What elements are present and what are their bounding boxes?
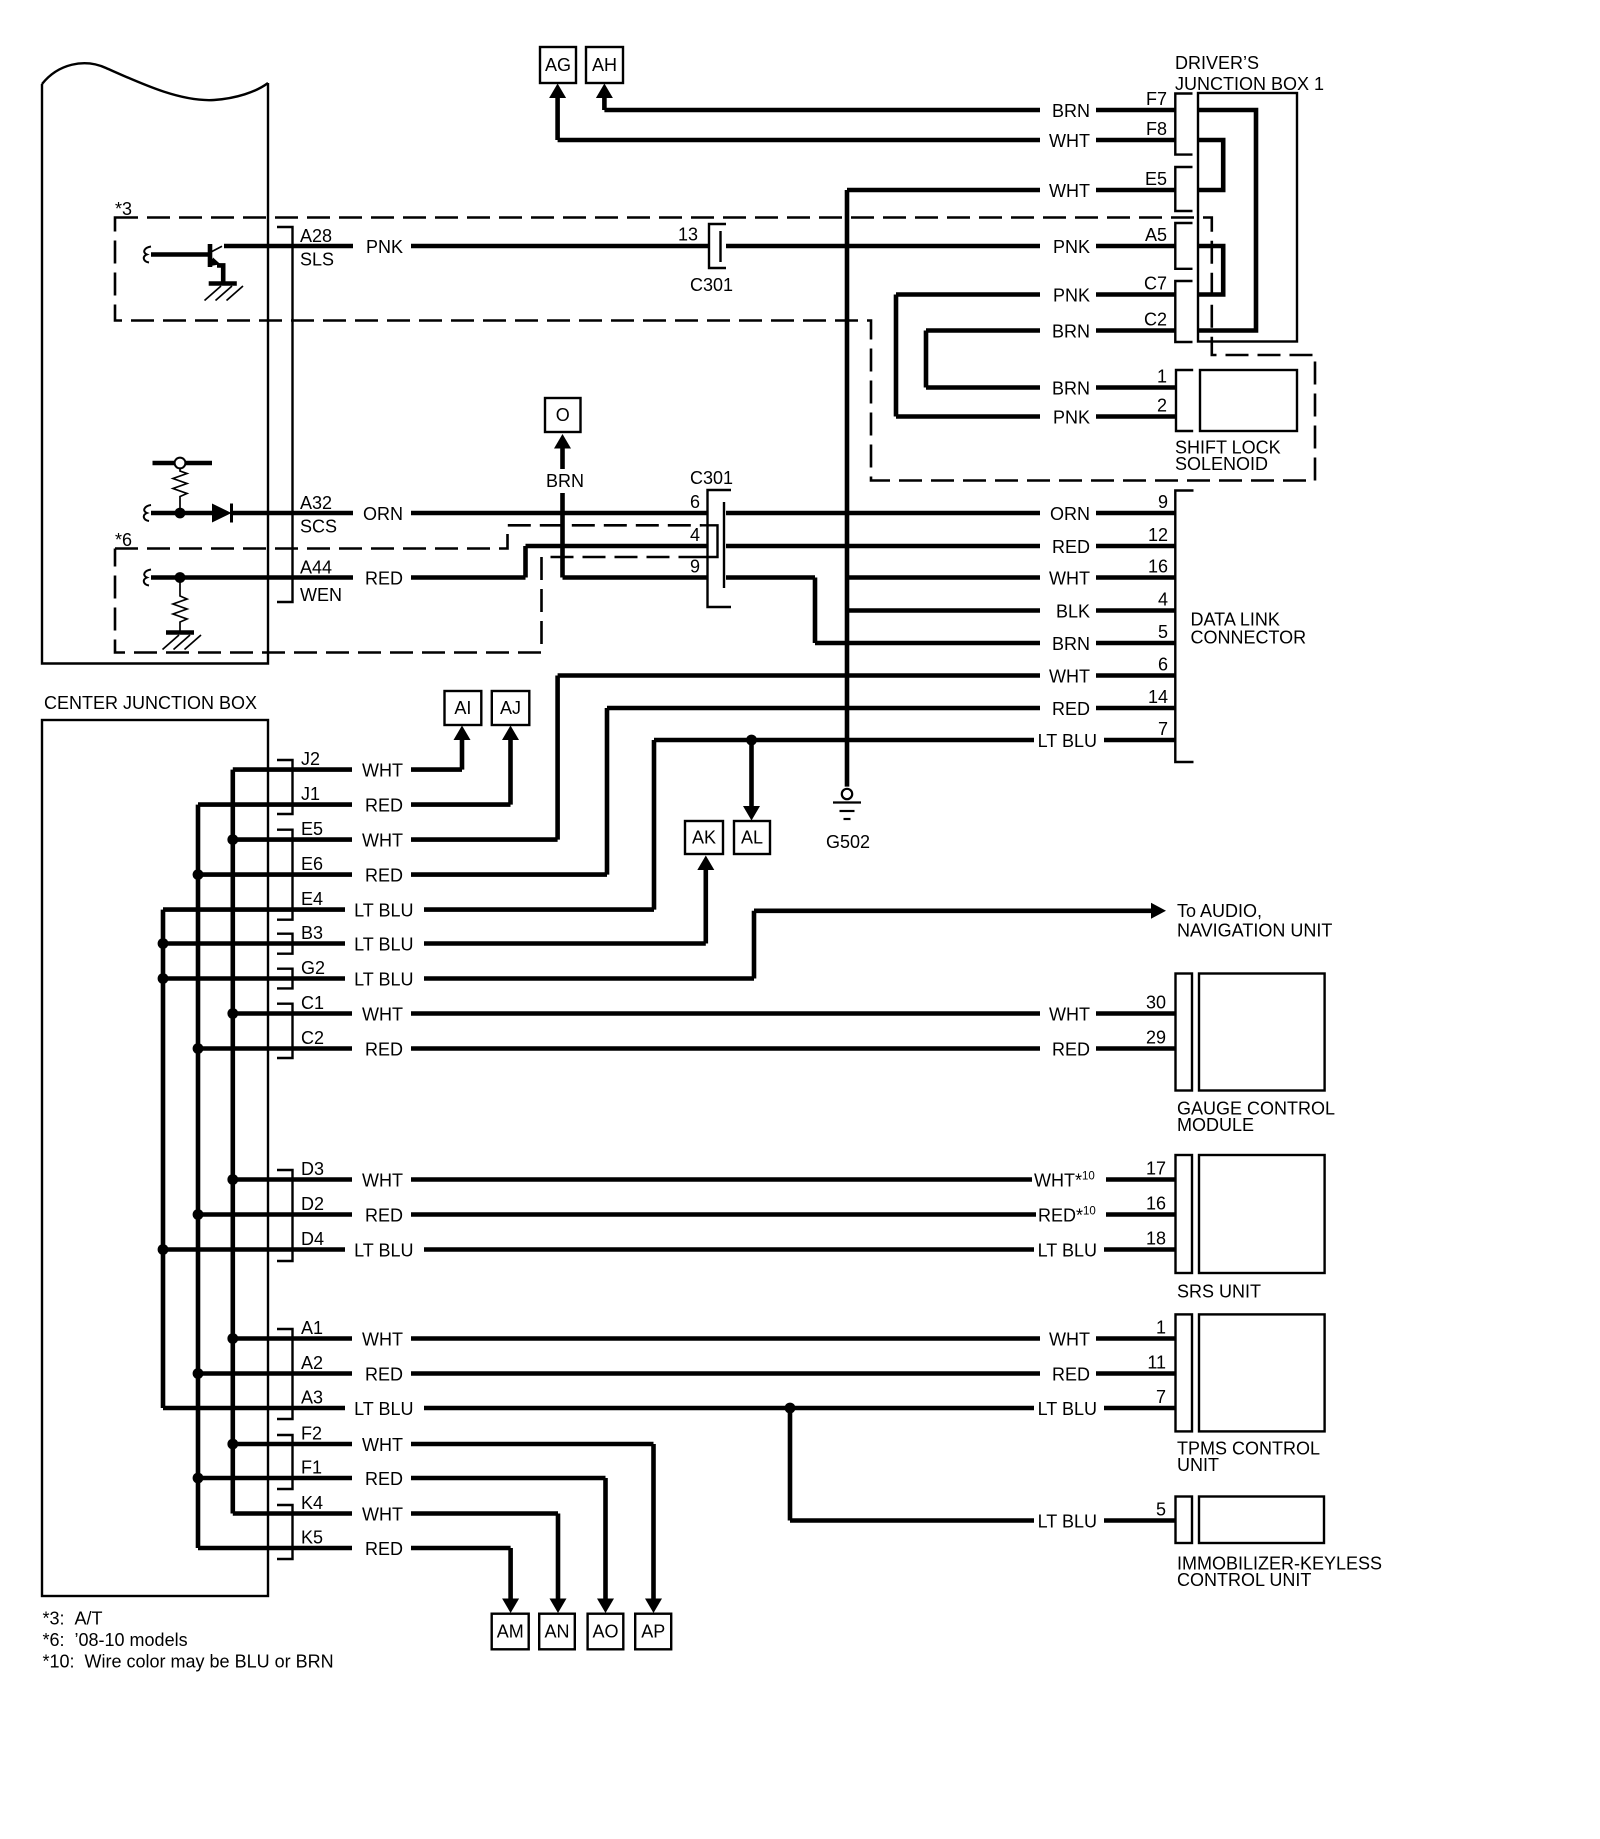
svg-text:PNK: PNK bbox=[1053, 237, 1090, 257]
svg-text:RED: RED bbox=[365, 1469, 403, 1489]
svg-text:RED: RED bbox=[365, 1040, 403, 1060]
svg-text:RED: RED bbox=[365, 1206, 403, 1226]
svg-text:BRN: BRN bbox=[1052, 379, 1090, 399]
svg-text:C2: C2 bbox=[1144, 310, 1167, 330]
svg-text:F2: F2 bbox=[301, 1424, 322, 1444]
svg-text:*3: A/T: *3: A/T bbox=[43, 1609, 103, 1629]
svg-text:E5: E5 bbox=[1145, 169, 1167, 189]
svg-text:1: 1 bbox=[1157, 367, 1167, 387]
svg-text:C1: C1 bbox=[301, 993, 324, 1013]
svg-text:RED: RED bbox=[365, 569, 403, 589]
svg-text:LT BLU: LT BLU bbox=[1038, 1241, 1097, 1261]
svg-text:A32: A32 bbox=[300, 493, 332, 513]
svg-text:DRIVER’S: DRIVER’S bbox=[1175, 53, 1259, 73]
svg-text:SOLENOID: SOLENOID bbox=[1175, 454, 1268, 474]
svg-text:16: 16 bbox=[1148, 557, 1168, 577]
svg-text:D4: D4 bbox=[301, 1229, 324, 1249]
svg-text:C2: C2 bbox=[301, 1028, 324, 1048]
svg-text:G502: G502 bbox=[826, 832, 870, 852]
svg-text:AO: AO bbox=[592, 1622, 618, 1642]
svg-text:WHT: WHT bbox=[362, 1505, 403, 1525]
svg-text:A28: A28 bbox=[300, 226, 332, 246]
svg-text:*6: *6 bbox=[115, 530, 132, 550]
svg-text:7: 7 bbox=[1156, 1387, 1166, 1407]
svg-text:WHT: WHT bbox=[362, 831, 403, 851]
svg-text:E4: E4 bbox=[301, 889, 323, 909]
svg-text:LT BLU: LT BLU bbox=[354, 1399, 413, 1419]
svg-text:RED*10: RED*10 bbox=[1038, 1206, 1096, 1226]
svg-text:PNK: PNK bbox=[1053, 286, 1090, 306]
svg-text:WEN: WEN bbox=[300, 585, 342, 605]
svg-text:AH: AH bbox=[592, 55, 617, 75]
svg-text:NAVIGATION UNIT: NAVIGATION UNIT bbox=[1177, 921, 1332, 941]
svg-text:CONTROL UNIT: CONTROL UNIT bbox=[1177, 1570, 1311, 1590]
svg-text:WHT: WHT bbox=[1049, 667, 1090, 687]
svg-text:AI: AI bbox=[454, 698, 471, 718]
svg-text:UNIT: UNIT bbox=[1177, 1455, 1219, 1475]
svg-text:7: 7 bbox=[1158, 719, 1168, 739]
svg-text:A3: A3 bbox=[301, 1388, 323, 1408]
svg-text:J1: J1 bbox=[301, 784, 320, 804]
svg-text:LT BLU: LT BLU bbox=[354, 901, 413, 921]
svg-text:CONNECTOR: CONNECTOR bbox=[1191, 628, 1307, 648]
svg-text:5: 5 bbox=[1156, 1500, 1166, 1520]
svg-text:BLK: BLK bbox=[1056, 602, 1090, 622]
svg-text:RED: RED bbox=[1052, 1040, 1090, 1060]
svg-text:SCS: SCS bbox=[300, 517, 337, 537]
svg-text:LT BLU: LT BLU bbox=[354, 935, 413, 955]
svg-text:ORN: ORN bbox=[363, 504, 403, 524]
svg-text:F8: F8 bbox=[1146, 119, 1167, 139]
svg-text:18: 18 bbox=[1146, 1229, 1166, 1249]
svg-text:AP: AP bbox=[641, 1622, 665, 1642]
svg-text:LT BLU: LT BLU bbox=[354, 970, 413, 990]
svg-text:F1: F1 bbox=[301, 1458, 322, 1478]
svg-text:BRN: BRN bbox=[1052, 634, 1090, 654]
svg-text:LT BLU: LT BLU bbox=[1038, 1512, 1097, 1532]
svg-text:13: 13 bbox=[678, 225, 698, 245]
svg-text:F7: F7 bbox=[1146, 89, 1167, 109]
svg-text:AK: AK bbox=[692, 828, 716, 848]
svg-text:14: 14 bbox=[1148, 687, 1168, 707]
svg-text:CENTER JUNCTION BOX: CENTER JUNCTION BOX bbox=[44, 693, 257, 713]
svg-text:WHT: WHT bbox=[362, 1171, 403, 1191]
svg-text:RED: RED bbox=[365, 1539, 403, 1559]
svg-text:WHT: WHT bbox=[1049, 181, 1090, 201]
svg-text:K4: K4 bbox=[301, 1493, 323, 1513]
svg-text:WHT*10: WHT*10 bbox=[1034, 1171, 1095, 1191]
svg-text:O: O bbox=[556, 405, 570, 425]
svg-text:*3: *3 bbox=[115, 199, 132, 219]
svg-text:C7: C7 bbox=[1144, 274, 1167, 294]
svg-text:A5: A5 bbox=[1145, 225, 1167, 245]
svg-text:WHT: WHT bbox=[1049, 569, 1090, 589]
svg-text:RED: RED bbox=[365, 1365, 403, 1385]
svg-text:RED: RED bbox=[1052, 537, 1090, 557]
svg-text:E6: E6 bbox=[301, 854, 323, 874]
svg-text:12: 12 bbox=[1148, 525, 1168, 545]
svg-text:JUNCTION BOX 1: JUNCTION BOX 1 bbox=[1175, 74, 1324, 94]
svg-text:BRN: BRN bbox=[1052, 322, 1090, 342]
svg-text:MODULE: MODULE bbox=[1177, 1115, 1254, 1135]
svg-text:ORN: ORN bbox=[1050, 504, 1090, 524]
svg-text:BRN: BRN bbox=[546, 471, 584, 491]
svg-text:AN: AN bbox=[544, 1622, 569, 1642]
svg-text:G2: G2 bbox=[301, 958, 325, 978]
svg-text:J2: J2 bbox=[301, 749, 320, 769]
svg-text:A2: A2 bbox=[301, 1353, 323, 1373]
svg-text:2: 2 bbox=[1157, 396, 1167, 416]
svg-text:WHT: WHT bbox=[362, 1005, 403, 1025]
svg-text:BRN: BRN bbox=[1052, 101, 1090, 121]
svg-text:D2: D2 bbox=[301, 1194, 324, 1214]
svg-text:To AUDIO,: To AUDIO, bbox=[1177, 901, 1262, 921]
svg-text:RED: RED bbox=[365, 796, 403, 816]
svg-text:A44: A44 bbox=[300, 558, 332, 578]
svg-text:4: 4 bbox=[690, 525, 700, 545]
svg-text:1: 1 bbox=[1156, 1318, 1166, 1338]
svg-text:WHT: WHT bbox=[1049, 1005, 1090, 1025]
svg-text:16: 16 bbox=[1146, 1194, 1166, 1214]
svg-text:6: 6 bbox=[690, 492, 700, 512]
svg-text:WHT: WHT bbox=[362, 761, 403, 781]
svg-text:WHT: WHT bbox=[1049, 131, 1090, 151]
svg-text:K5: K5 bbox=[301, 1528, 323, 1548]
svg-text:WHT: WHT bbox=[362, 1435, 403, 1455]
svg-text:6: 6 bbox=[1158, 655, 1168, 675]
svg-text:LT BLU: LT BLU bbox=[354, 1241, 413, 1261]
svg-text:E5: E5 bbox=[301, 819, 323, 839]
svg-text:5: 5 bbox=[1158, 622, 1168, 642]
svg-text:B3: B3 bbox=[301, 923, 323, 943]
svg-text:AM: AM bbox=[497, 1622, 524, 1642]
svg-text:SRS UNIT: SRS UNIT bbox=[1177, 1282, 1261, 1302]
svg-text:SLS: SLS bbox=[300, 250, 334, 270]
svg-text:AJ: AJ bbox=[500, 698, 521, 718]
svg-text:LT BLU: LT BLU bbox=[1038, 1399, 1097, 1419]
svg-text:AL: AL bbox=[741, 828, 763, 848]
svg-text:9: 9 bbox=[690, 557, 700, 577]
svg-text:RED: RED bbox=[365, 866, 403, 886]
svg-text:AG: AG bbox=[545, 55, 571, 75]
svg-text:9: 9 bbox=[1158, 492, 1168, 512]
svg-text:4: 4 bbox=[1158, 590, 1168, 610]
svg-text:*6: ’08-10 models: *6: ’08-10 models bbox=[43, 1630, 188, 1650]
svg-text:PNK: PNK bbox=[1053, 408, 1090, 428]
svg-text:17: 17 bbox=[1146, 1159, 1166, 1179]
svg-text:30: 30 bbox=[1146, 993, 1166, 1013]
svg-text:RED: RED bbox=[1052, 1365, 1090, 1385]
svg-text:29: 29 bbox=[1146, 1028, 1166, 1048]
svg-text:WHT: WHT bbox=[1049, 1330, 1090, 1350]
svg-text:DATA LINK: DATA LINK bbox=[1191, 610, 1280, 630]
svg-text:PNK: PNK bbox=[366, 237, 403, 257]
svg-text:*10: Wire color may be BLU or: *10: Wire color may be BLU or BRN bbox=[43, 1652, 334, 1672]
svg-text:C301: C301 bbox=[690, 468, 733, 488]
svg-text:A1: A1 bbox=[301, 1318, 323, 1338]
svg-text:RED: RED bbox=[1052, 699, 1090, 719]
svg-text:LT BLU: LT BLU bbox=[1038, 731, 1097, 751]
svg-text:11: 11 bbox=[1147, 1353, 1166, 1373]
svg-text:C301: C301 bbox=[690, 275, 733, 295]
svg-text:WHT: WHT bbox=[362, 1330, 403, 1350]
svg-text:D3: D3 bbox=[301, 1159, 324, 1179]
